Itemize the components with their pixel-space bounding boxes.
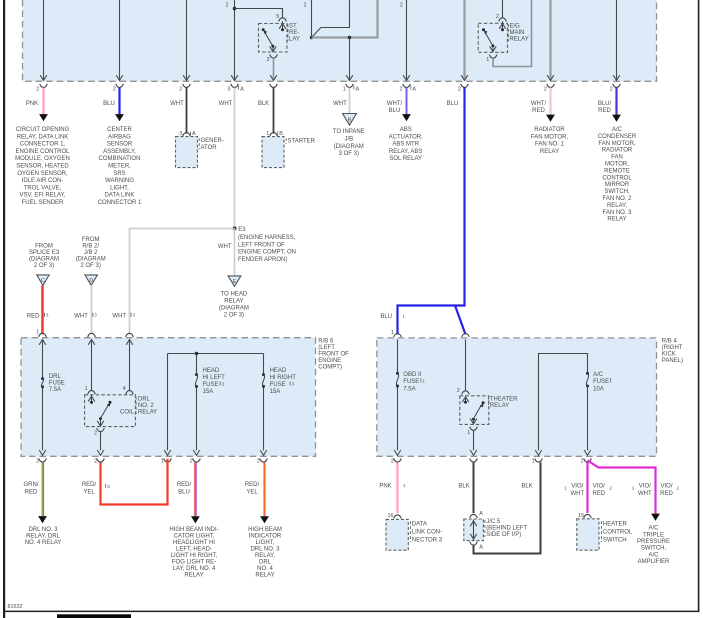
- svg-text:1: 1: [266, 131, 269, 137]
- OBD II fuse column wire: [397, 339, 399, 450]
- svg-text:FOG LIGHT RE-: FOG LIGHT RE-: [172, 559, 216, 565]
- svg-text:LIGHT,: LIGHT,: [256, 540, 275, 546]
- svg-text:RELAY,: RELAY,: [255, 553, 275, 559]
- svg-text:1: 1: [391, 330, 394, 336]
- wire theater relay to border: [473, 430, 475, 450]
- svg-text:ATOR: ATOR: [201, 145, 218, 151]
- heavy wire col12 (WHT/RED feed): [549, 0, 551, 80]
- svg-text:DATA: DATA: [412, 521, 427, 527]
- svg-text:WHT/: WHT/: [387, 101, 403, 107]
- svg-text:TRIPLE: TRIPLE: [643, 532, 664, 538]
- svg-text:CONTROL: CONTROL: [602, 175, 632, 181]
- wire PNK: [42, 88, 44, 115]
- svg-text:DRL: DRL: [49, 374, 62, 380]
- node on col4: [233, 7, 237, 11]
- svg-text:VIO/: VIO/: [660, 484, 672, 490]
- svg-text:ABS MTR: ABS MTR: [392, 142, 419, 148]
- destination text: to head relay: [219, 292, 249, 319]
- svg-text:COMBINATION: COMBINATION: [99, 156, 141, 162]
- svg-text:RELAY, DATA LINK: RELAY, DATA LINK: [17, 134, 69, 140]
- wire RED/YEL U-link: [101, 459, 168, 505]
- svg-text:OYGEN SENSOR,: OYGEN SENSOR,: [17, 171, 68, 177]
- svg-text:CONTROL: CONTROL: [603, 529, 633, 535]
- wire VIO branch to A/C: [588, 460, 656, 513]
- svg-text:HIGH BEAM: HIGH BEAM: [248, 527, 282, 533]
- svg-text:RED/: RED/: [82, 482, 97, 488]
- svg-text:1: 1: [36, 330, 39, 336]
- svg-text:2: 2: [496, 14, 499, 20]
- svg-text:2: 2: [458, 87, 461, 93]
- wire GRN/RED: [42, 462, 43, 516]
- R/B 4 junction block box: [377, 338, 657, 456]
- svg-text:1: 1: [343, 87, 346, 93]
- destination text: ABS actuator: [389, 127, 423, 162]
- A/C fuse label: [593, 372, 609, 393]
- svg-text:(DIAGRAM: (DIAGRAM: [334, 144, 364, 150]
- svg-text:FRONT OF: FRONT OF: [318, 351, 349, 357]
- svg-text:2 OF 3): 2 OF 3): [224, 313, 244, 319]
- DLC3 label: [412, 521, 443, 543]
- svg-text:LEFT FRONT OF: LEFT FRONT OF: [238, 242, 285, 248]
- svg-text:SIDE OF I/P): SIDE OF I/P): [486, 532, 521, 538]
- ST relay pin 3 connector cup: [270, 54, 278, 58]
- svg-text:FUSE: FUSE: [203, 382, 219, 388]
- svg-text:LAY: LAY: [289, 37, 300, 43]
- DRL FUSE symbol: [41, 377, 44, 380]
- svg-text:B: B: [279, 131, 283, 137]
- theater relay switch arm: [482, 401, 485, 404]
- svg-text:2: 2: [179, 87, 182, 93]
- wire WHT/RED: [549, 88, 551, 115]
- svg-text:(BEHIND LEFT: (BEHIND LEFT: [486, 526, 527, 532]
- svg-text:WHT/: WHT/: [531, 101, 547, 107]
- svg-text:A: A: [356, 87, 360, 93]
- wire loop from E/G pin1 up to top: [493, 0, 531, 67]
- svg-text:SENSOR: SENSOR: [107, 142, 133, 148]
- svg-text:FROM: FROM: [35, 244, 53, 250]
- svg-text:BLU: BLU: [178, 490, 190, 496]
- svg-text:DRL NO. 3: DRL NO. 3: [250, 546, 280, 552]
- svg-text:2: 2: [400, 2, 403, 8]
- svg-text:RED/: RED/: [245, 482, 260, 488]
- svg-text:NECTOR 3: NECTOR 3: [412, 537, 443, 543]
- svg-text:RELAY, DRL: RELAY, DRL: [26, 533, 60, 539]
- A/C FUSE symbol: [586, 372, 589, 375]
- svg-text:RED: RED: [27, 313, 40, 319]
- svg-text:BLU: BLU: [380, 314, 392, 320]
- svg-text:BLU: BLU: [447, 101, 459, 107]
- HEAD HI LEFT FUSE label: [203, 368, 226, 395]
- pin 5 connector cap: [279, 18, 287, 22]
- svg-text:A: A: [240, 87, 244, 93]
- svg-text:1: 1: [85, 386, 88, 392]
- page bottom border: [3, 611, 699, 613]
- svg-text:J/C 5: J/C 5: [486, 519, 501, 525]
- svg-text:STARTER: STARTER: [288, 139, 316, 145]
- svg-text:CENTER: CENTER: [107, 127, 132, 133]
- wire col13 (BLU/RED feed): [616, 0, 618, 81]
- svg-text:FAN MOTOR,: FAN MOTOR,: [598, 141, 636, 147]
- svg-text:SWITCH,: SWITCH,: [641, 546, 667, 552]
- svg-text:RELAY: RELAY: [510, 37, 529, 43]
- svg-text:TROL VALVE,: TROL VALVE,: [24, 185, 62, 191]
- svg-text:ABS: ABS: [400, 127, 412, 133]
- svg-text:BLU: BLU: [103, 101, 115, 107]
- svg-text:VSV, EFI RELAY,: VSV, EFI RELAY,: [20, 193, 66, 199]
- svg-text:2: 2: [190, 458, 193, 464]
- col7 exit connector 2/A: [403, 84, 411, 88]
- svg-text:FAN NO. 3: FAN NO. 3: [602, 210, 632, 216]
- svg-text:A/C: A/C: [593, 372, 604, 378]
- svg-text:7.5A: 7.5A: [49, 387, 61, 393]
- THEATER RELAY box: [460, 396, 489, 425]
- wire RED/BLU: [195, 462, 196, 516]
- wire branch from col4 to ST relay pin 5: [235, 9, 283, 18]
- OBD II fuse label: [403, 372, 421, 393]
- col6 exit connector 1/A: [346, 84, 354, 88]
- svg-text:A: A: [479, 511, 483, 517]
- svg-text:FENDER APRON): FENDER APRON): [238, 257, 287, 263]
- svg-text:ENGINE: ENGINE: [318, 358, 341, 364]
- svg-text:RELAY: RELAY: [255, 572, 274, 578]
- svg-text:D: D: [89, 278, 93, 284]
- theater relay feed wire: [465, 339, 467, 390]
- svg-text:2: 2: [113, 87, 116, 93]
- svg-text:2: 2: [544, 87, 547, 93]
- svg-text:RED: RED: [532, 108, 545, 114]
- head fuse bus wire: [168, 353, 264, 355]
- R/B6 entry (WHT from E3): [126, 333, 134, 337]
- svg-text:HEAD: HEAD: [270, 368, 287, 374]
- destination text: A/C triple pressure switch: [637, 526, 670, 566]
- wire BLK to starter: [273, 88, 275, 134]
- A/C fuse loop wire: [539, 354, 588, 451]
- svg-text:SRS: SRS: [113, 171, 125, 177]
- svg-text:REMOTE: REMOTE: [604, 168, 630, 174]
- E/G relay switch arm: [485, 33, 493, 46]
- svg-text:1: 1: [161, 458, 164, 464]
- svg-text:LAY, DRL NO. 4: LAY, DRL NO. 4: [173, 566, 216, 572]
- svg-text:SPLICE E3: SPLICE E3: [29, 250, 60, 256]
- STARTER box: [262, 137, 284, 168]
- svg-text:SWITCH: SWITCH: [603, 537, 627, 543]
- R/B 4 label: [662, 338, 683, 364]
- svg-text:2: 2: [257, 458, 260, 464]
- svg-text:NO. 4 RELAY: NO. 4 RELAY: [25, 540, 62, 546]
- R/B4 entry (theater feed): [462, 334, 470, 338]
- destination text: radiator fan motor: [531, 127, 569, 155]
- HEAD HI RIGHT FUSE column: [263, 354, 265, 451]
- E/G relay pin 1 cup: [489, 55, 497, 59]
- HEAD HI RIGHT FUSE label: [270, 368, 297, 395]
- svg-text:A/C: A/C: [612, 127, 623, 133]
- svg-text:CIRCUIT OPENING: CIRCUIT OPENING: [16, 127, 70, 133]
- svg-text:7.5A: 7.5A: [403, 387, 415, 393]
- svg-text:J/B 2: J/B 2: [84, 250, 98, 256]
- wire RED from C to R/B6: [41, 285, 43, 334]
- node at inpane wire: [348, 36, 351, 39]
- DRL relay pin1 stub: [91, 395, 93, 403]
- svg-text:CONDENSER: CONDENSER: [598, 134, 637, 140]
- destination text: high beam indicator light: [248, 527, 282, 579]
- E/G relay pin 2 stub: [502, 21, 504, 29]
- svg-text:A/C: A/C: [648, 526, 659, 532]
- wire BLU/RED: [615, 88, 617, 115]
- svg-text:B: B: [348, 118, 352, 124]
- source text: from R/B 2: [76, 237, 106, 269]
- svg-text:LIGHT,: LIGHT,: [110, 185, 129, 191]
- svg-text:2 OF 3): 2 OF 3): [34, 263, 54, 269]
- svg-text:81632: 81632: [8, 604, 23, 610]
- J/C5 internal through-wire: [473, 520, 475, 541]
- J/C5 pin A bottom: [470, 542, 478, 546]
- svg-text:NO. 4: NO. 4: [257, 566, 273, 572]
- page right border: [698, 0, 700, 612]
- svg-text:2: 2: [391, 458, 394, 464]
- svg-text:HEATER: HEATER: [603, 521, 628, 527]
- triangle connector C: [37, 275, 50, 285]
- svg-text:E3: E3: [238, 227, 246, 233]
- svg-text:RELAY,: RELAY,: [607, 203, 627, 209]
- svg-text:VIO/: VIO/: [593, 484, 605, 490]
- E/G relay pin 1 stub arrow: [492, 46, 494, 52]
- svg-text:FAN NO. 2: FAN NO. 2: [602, 196, 632, 202]
- svg-text:2: 2: [610, 87, 613, 93]
- heavy wire col10 (BLU feed): [463, 0, 465, 80]
- svg-text:RELAY: RELAY: [138, 409, 157, 415]
- svg-text:COMPT): COMPT): [318, 364, 342, 370]
- svg-text:(RIGHT: (RIGHT: [662, 345, 683, 351]
- svg-text:GRN/: GRN/: [24, 482, 39, 488]
- svg-text:1: 1: [532, 458, 535, 464]
- E/G main relay pin 2 wire: [502, 0, 504, 17]
- svg-text:WHT: WHT: [170, 101, 184, 107]
- svg-text:3: 3: [179, 131, 182, 137]
- svg-text:2: 2: [400, 87, 403, 93]
- wire PNK to DLC3: [396, 462, 398, 513]
- svg-text:C: C: [41, 278, 45, 284]
- svg-text:METER,: METER,: [108, 164, 131, 170]
- svg-text:RE-: RE-: [289, 30, 299, 36]
- J/C5 pin A top: [470, 514, 478, 518]
- svg-text:COIL: COIL: [120, 409, 135, 415]
- svg-text:2: 2: [304, 2, 307, 8]
- wire from bus down (to inpane J/B): [349, 38, 351, 81]
- heavy bus wire to top: [312, 0, 378, 38]
- wire col4 (to E3 splice) with pin 2 label: [234, 0, 236, 81]
- wire WHT from D to R/B6: [91, 285, 93, 334]
- HEATER CONTROL SWITCH box: [577, 519, 599, 550]
- triangle connector B: [343, 114, 357, 126]
- destination text: A/C condenser fan motor: [598, 127, 637, 223]
- svg-text:RELAY: RELAY: [540, 149, 559, 155]
- theater relay pin 1 cup: [470, 427, 478, 431]
- wire WHT long (to E3 splice): [234, 88, 236, 229]
- svg-text:GENER-: GENER-: [201, 138, 224, 144]
- col1 exit connector: [40, 84, 48, 88]
- svg-text:NO. 2: NO. 2: [138, 403, 154, 409]
- svg-text:VIO/: VIO/: [571, 484, 583, 490]
- ST relay pin 3 stub with arrow: [272, 46, 274, 52]
- theater relay pin2 stub: [465, 396, 467, 403]
- svg-text:BLU/: BLU/: [598, 101, 612, 107]
- wire BLU: [118, 88, 120, 115]
- svg-text:SWITCH,: SWITCH,: [604, 189, 630, 195]
- svg-text:ACTUATOR,: ACTUATOR,: [389, 134, 423, 140]
- triangle connector E: [228, 276, 241, 286]
- wire DRL relay to border: [100, 431, 102, 450]
- wire col2 (to center airbag sensor): [119, 0, 121, 81]
- source text: from splice E3: [29, 244, 60, 270]
- ST relay pin 5 stub: [282, 21, 284, 29]
- svg-text:2: 2: [36, 87, 39, 93]
- svg-text:RED: RED: [598, 108, 611, 114]
- R/B6 entry (WHT from D): [88, 333, 96, 337]
- svg-text:3: 3: [227, 87, 230, 93]
- DRL NO.2 COIL RELAY box: [85, 395, 136, 427]
- svg-text:3 OF 3): 3 OF 3): [339, 151, 359, 157]
- svg-text:R/B 6: R/B 6: [318, 338, 334, 344]
- col4 exit connector 3/A: [231, 84, 239, 88]
- E3 note text: [238, 235, 296, 263]
- wire col6 (short, to bus node) with pin 2 label: [311, 0, 313, 38]
- svg-text:CATOR LIGHT,: CATOR LIGHT,: [174, 533, 215, 539]
- svg-text:3: 3: [267, 57, 270, 63]
- svg-text:VIO/: VIO/: [639, 484, 651, 490]
- svg-text:AIRBAG: AIRBAG: [108, 134, 131, 140]
- wire BLK U-link from J/C5 to R/B4: [474, 462, 541, 553]
- svg-text:2: 2: [94, 430, 97, 436]
- svg-text:FAN: FAN: [611, 155, 623, 161]
- destination text: circuit opening relay: [15, 127, 70, 206]
- svg-text:BLK: BLK: [258, 101, 269, 107]
- svg-text:ASSEMBLY,: ASSEMBLY,: [103, 149, 136, 155]
- svg-text:MAIN: MAIN: [510, 30, 525, 36]
- footer black bar: [57, 614, 131, 618]
- node at col6 bus: [310, 36, 313, 39]
- bus left leg to pin 1: [167, 354, 169, 451]
- wire col7 (bent, joins bus): [312, 0, 350, 38]
- wires down to DRL relay pins: [92, 339, 130, 391]
- wire VIO to heater control switch: [586, 462, 588, 513]
- svg-text:A: A: [412, 87, 416, 93]
- svg-text:WHT: WHT: [219, 101, 233, 107]
- svg-text:MOTOR,: MOTOR,: [605, 162, 629, 168]
- wire WHT from E3 down to triangle E: [234, 229, 236, 276]
- svg-text:BLK: BLK: [521, 484, 532, 490]
- R/B 6 label: [318, 338, 349, 370]
- svg-text:1: 1: [467, 430, 470, 436]
- theater relay pin1 stub arrow: [473, 419, 475, 424]
- svg-text:15A: 15A: [203, 389, 214, 395]
- svg-text:WHT: WHT: [112, 313, 126, 319]
- svg-text:MODULE, OXYGEN: MODULE, OXYGEN: [15, 156, 70, 162]
- col5 exit connector: [270, 84, 278, 88]
- destination text: high beam indicator: [169, 527, 218, 579]
- svg-text:BLU: BLU: [389, 108, 401, 114]
- wire WHT/BLU: [406, 88, 408, 115]
- svg-text:BLK: BLK: [458, 484, 469, 490]
- GENERATOR box: [176, 137, 198, 168]
- svg-text:J/B: J/B: [344, 137, 353, 143]
- top box dashed border: [23, 0, 657, 81]
- DRL fuse label: [49, 374, 65, 393]
- svg-text:PRESSURE: PRESSURE: [637, 539, 670, 545]
- destination text: DRL no.3 relay: [25, 527, 62, 546]
- svg-text:5: 5: [276, 14, 279, 20]
- svg-text:HI LEFT: HI LEFT: [203, 375, 226, 381]
- svg-text:WHT: WHT: [218, 244, 232, 250]
- svg-text:TO HEAD: TO HEAD: [221, 292, 248, 298]
- destination text: to inpane J/B: [333, 129, 365, 157]
- svg-text:SOL RELAY: SOL RELAY: [389, 156, 422, 162]
- svg-text:PNK: PNK: [26, 101, 38, 107]
- svg-text:THEATER: THEATER: [490, 396, 518, 402]
- triangle connector D: [85, 275, 98, 285]
- svg-text:FUSE: FUSE: [270, 382, 286, 388]
- DRL relay switch arm: [109, 401, 112, 404]
- svg-text:2: 2: [226, 2, 229, 8]
- svg-text:INDICATOR: INDICATOR: [249, 533, 282, 539]
- svg-text:PANEL): PANEL): [662, 358, 683, 364]
- HEAD HI LEFT FUSE column: [196, 354, 198, 451]
- svg-text:(ENGINE HARNESS,: (ENGINE HARNESS,: [238, 235, 296, 241]
- svg-text:RELAY: RELAY: [607, 217, 626, 223]
- svg-text:FUSE: FUSE: [593, 379, 609, 385]
- svg-text:ENGINE COMPT, ON: ENGINE COMPT, ON: [238, 250, 296, 256]
- heater switch label: [603, 521, 633, 543]
- svg-text:DRL NO. 3: DRL NO. 3: [28, 527, 58, 533]
- svg-text:CONNECTOR 1,: CONNECTOR 1,: [20, 142, 66, 148]
- svg-text:DATA LINK: DATA LINK: [105, 193, 135, 199]
- wire BLU diagonal into R/B4: [455, 306, 466, 335]
- J/C 5 box: [464, 519, 484, 541]
- svg-text:RELAY, ABS: RELAY, ABS: [389, 149, 422, 155]
- svg-text:A: A: [479, 545, 483, 551]
- wire ST relay pin3 to border: [273, 58, 275, 80]
- page left border: [3, 0, 5, 618]
- svg-text:FROM: FROM: [82, 237, 100, 243]
- svg-text:10A: 10A: [593, 387, 604, 393]
- col10 exit connector: [613, 84, 621, 88]
- wire WHT to generator: [186, 88, 188, 134]
- svg-text:IDLE AIR CON-: IDLE AIR CON-: [22, 178, 64, 184]
- ST relay label: [289, 24, 300, 43]
- svg-text:16: 16: [388, 513, 394, 519]
- svg-text:FAN NO. 1: FAN NO. 1: [535, 142, 565, 148]
- svg-text:RELAY: RELAY: [224, 299, 243, 305]
- svg-text:FUSE: FUSE: [403, 379, 419, 385]
- E/G relay label: [510, 24, 529, 43]
- svg-text:15A: 15A: [270, 389, 281, 395]
- svg-text:ST: ST: [289, 24, 297, 30]
- wire col1 (to circuit opening relay): [43, 0, 45, 81]
- svg-text:2: 2: [581, 458, 584, 464]
- starter relay ST RELAY box: [259, 24, 288, 53]
- splice node E3: [233, 227, 237, 231]
- svg-text:HI RIGHT: HI RIGHT: [270, 375, 297, 381]
- svg-text:E/G: E/G: [510, 24, 521, 30]
- wire WHT branch from E3 left and down to R/B6: [130, 229, 235, 335]
- svg-text:TO INPANE: TO INPANE: [333, 129, 365, 135]
- col8 exit connector: [461, 84, 469, 88]
- svg-text:RED: RED: [25, 490, 38, 496]
- svg-text:(DIAGRAM: (DIAGRAM: [219, 306, 249, 312]
- svg-text:LINK CON-: LINK CON-: [412, 529, 442, 535]
- svg-text:WHT: WHT: [570, 491, 584, 497]
- svg-text:LEFT, HEAD-: LEFT, HEAD-: [176, 546, 212, 552]
- wire RED/YEL (high beam): [263, 462, 265, 516]
